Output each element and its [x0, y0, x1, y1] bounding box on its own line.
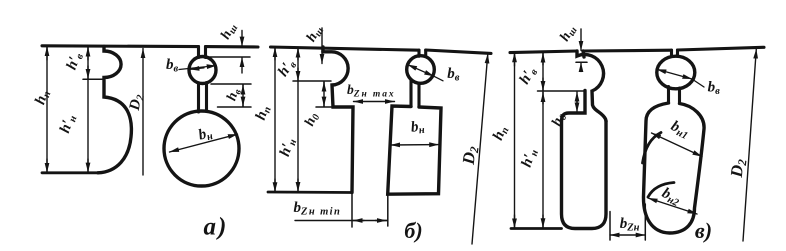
neck walls (a): [199, 83, 207, 113]
extension tick h'_v level (v): [538, 90, 586, 92]
extension tick h'_v level (a): [83, 78, 104, 80]
svg-text:bн: bн: [410, 118, 425, 137]
svg-text:hш: hш: [218, 21, 240, 43]
label b_n (b): [410, 118, 425, 137]
surface line v (right): [678, 47, 765, 50]
bottom base line a: [42, 171, 98, 174]
leader/diameter arrow b_v (a): [179, 66, 216, 70]
svg-text:hш: hш: [557, 23, 579, 45]
surface line v (middle): [583, 49, 672, 53]
svg-text:bZн: bZн: [620, 216, 640, 234]
caption v): [695, 218, 712, 243]
svg-text:h′н: h′н: [277, 136, 299, 159]
label h_p (b): [253, 103, 274, 122]
lower circle b_n (a): [164, 111, 239, 186]
dimension h_p (b): [274, 48, 276, 192]
diameter arrow b_n2 (v): [648, 198, 697, 214]
svg-text:h0: h0: [302, 111, 322, 129]
extension lines h_v (a): [211, 84, 251, 107]
extension below wall (b_Zn min right): [387, 194, 389, 226]
label h'_n (v): [519, 147, 541, 170]
tapered oval body (v): [643, 103, 704, 233]
label D2 (b): [459, 145, 482, 167]
label D2 (a): [127, 92, 147, 113]
caption a): [204, 213, 229, 240]
lower bar rectangle (b): [388, 106, 441, 194]
label h'_n (a): [57, 112, 79, 135]
dimension h_0 (b): [323, 82, 325, 106]
svg-text:h′в: h′в: [64, 50, 86, 72]
surface line v (left): [510, 51, 577, 53]
svg-text:bZн max: bZн max: [347, 82, 396, 100]
dimension b_Zn min (b): [295, 220, 387, 222]
label b_n (a): [197, 125, 215, 145]
surface line a (right of slot opening): [206, 45, 259, 49]
extension tick h_sh (v): [576, 61, 587, 63]
label h_0 (v): [549, 111, 569, 129]
label b_v (b): [447, 66, 460, 84]
neck walls (v): [669, 87, 680, 104]
dimension D2 (b) slanted: [472, 54, 488, 244]
label b_Zn min (b): [294, 200, 342, 218]
label b_n1 (v): [668, 118, 692, 142]
half-slot profile a: [98, 46, 131, 172]
extension tick h_0 bottom (b): [316, 106, 333, 108]
slot opening walls (a): [199, 47, 206, 58]
svg-text:hв: hв: [224, 86, 244, 103]
svg-text:D2: D2: [727, 158, 750, 179]
diameter arrow + leader b_v (v): [657, 69, 704, 87]
inner arc lower circle (v): [648, 183, 674, 198]
dimension h_sh (v): [580, 29, 582, 72]
svg-text:б): б): [404, 218, 422, 243]
svg-text:hп: hп: [490, 123, 512, 143]
label h_sh (a): [218, 21, 240, 43]
upper circle b_v (a): [189, 57, 216, 84]
svg-text:hп: hп: [253, 103, 274, 122]
dimension h_v (a): [242, 84, 244, 106]
diameter arrow b_n (a): [170, 134, 238, 152]
label h_v (a): [224, 86, 244, 103]
dimension h'_v + h'_n shared (v): [542, 53, 544, 229]
svg-text:h′в: h′в: [517, 64, 541, 88]
slot opening walls (v): [672, 50, 678, 56]
dimension h_p (a): [46, 47, 48, 173]
svg-text:bZн min: bZн min: [294, 200, 342, 218]
dimension b_Zn (v): [610, 234, 645, 236]
svg-text:bн2: bн2: [659, 185, 684, 209]
dimension b_n width (b): [391, 144, 439, 146]
label h_p (v): [490, 123, 512, 143]
extension tick h'_v level (b): [293, 80, 331, 82]
diameter arrow b_v (b): [408, 65, 443, 81]
svg-text:hп: hп: [32, 88, 53, 107]
half-slot profile b: [323, 47, 353, 193]
svg-text:в): в): [695, 218, 712, 243]
label D2 (v): [727, 158, 750, 179]
label b_v (v): [708, 80, 721, 98]
surface line b: [271, 47, 420, 50]
label h'_v (b): [275, 56, 299, 80]
label h_p (a): [32, 88, 53, 107]
upper circle b_v (b): [407, 56, 435, 84]
bottom base line b: [268, 191, 352, 194]
extension below wall b (b_Zn min left): [351, 193, 353, 228]
diameter arrow b_n1 (v): [652, 133, 703, 157]
label h_sh (b): [304, 23, 326, 45]
dimension h_p (v): [514, 53, 516, 228]
surface line a (left of slot opening): [42, 44, 199, 48]
dimension h_sh (a): [241, 31, 243, 74]
label h'_n (b): [277, 136, 299, 159]
inner arc upper circle (v): [643, 133, 662, 164]
upper circle b_v (v): [657, 56, 695, 89]
svg-text:а): а): [204, 213, 229, 240]
bottom base line v: [511, 227, 562, 230]
extension line h_sh bottom (a): [208, 56, 251, 58]
caption b): [404, 218, 422, 243]
label h'_v (v): [517, 64, 541, 88]
svg-text:bв: bв: [166, 57, 179, 75]
svg-text:h′н: h′н: [519, 147, 541, 170]
half-slot profile v: [562, 51, 607, 229]
label b_n2 (v): [659, 185, 684, 209]
label b_v (a): [166, 57, 179, 75]
label h_sh (v): [557, 23, 579, 45]
svg-text:bв: bв: [708, 80, 721, 98]
svg-text:h′н: h′н: [57, 112, 79, 135]
neck walls (b): [411, 81, 419, 107]
svg-text:hш: hш: [304, 23, 326, 45]
dimension b_Zn max (b): [354, 101, 395, 103]
svg-text:bв: bв: [447, 66, 460, 84]
label h_0 (b): [302, 111, 322, 129]
label b_Zn (v): [620, 216, 640, 234]
dimension line h'_n + h'_v shared (a): [87, 47, 89, 173]
svg-text:h′в: h′в: [275, 56, 299, 80]
svg-text:D2: D2: [127, 92, 147, 113]
label b_Zn max (b): [347, 82, 396, 100]
slot opening walls (b): [419, 50, 426, 56]
dimension h_sh (b): [321, 28, 323, 64]
svg-text:bн1: bн1: [668, 118, 692, 142]
surface line b (right of opening): [426, 50, 491, 53]
label h'_v (a): [64, 50, 86, 72]
dimension D2 (a): [142, 49, 144, 176]
dimension h_0 (v): [576, 92, 578, 112]
dimension D2 (v) slanted: [743, 49, 756, 241]
extension lines b_Zn (v): [610, 204, 645, 240]
dimension h'_v + h'_n shared (b): [297, 48, 299, 192]
